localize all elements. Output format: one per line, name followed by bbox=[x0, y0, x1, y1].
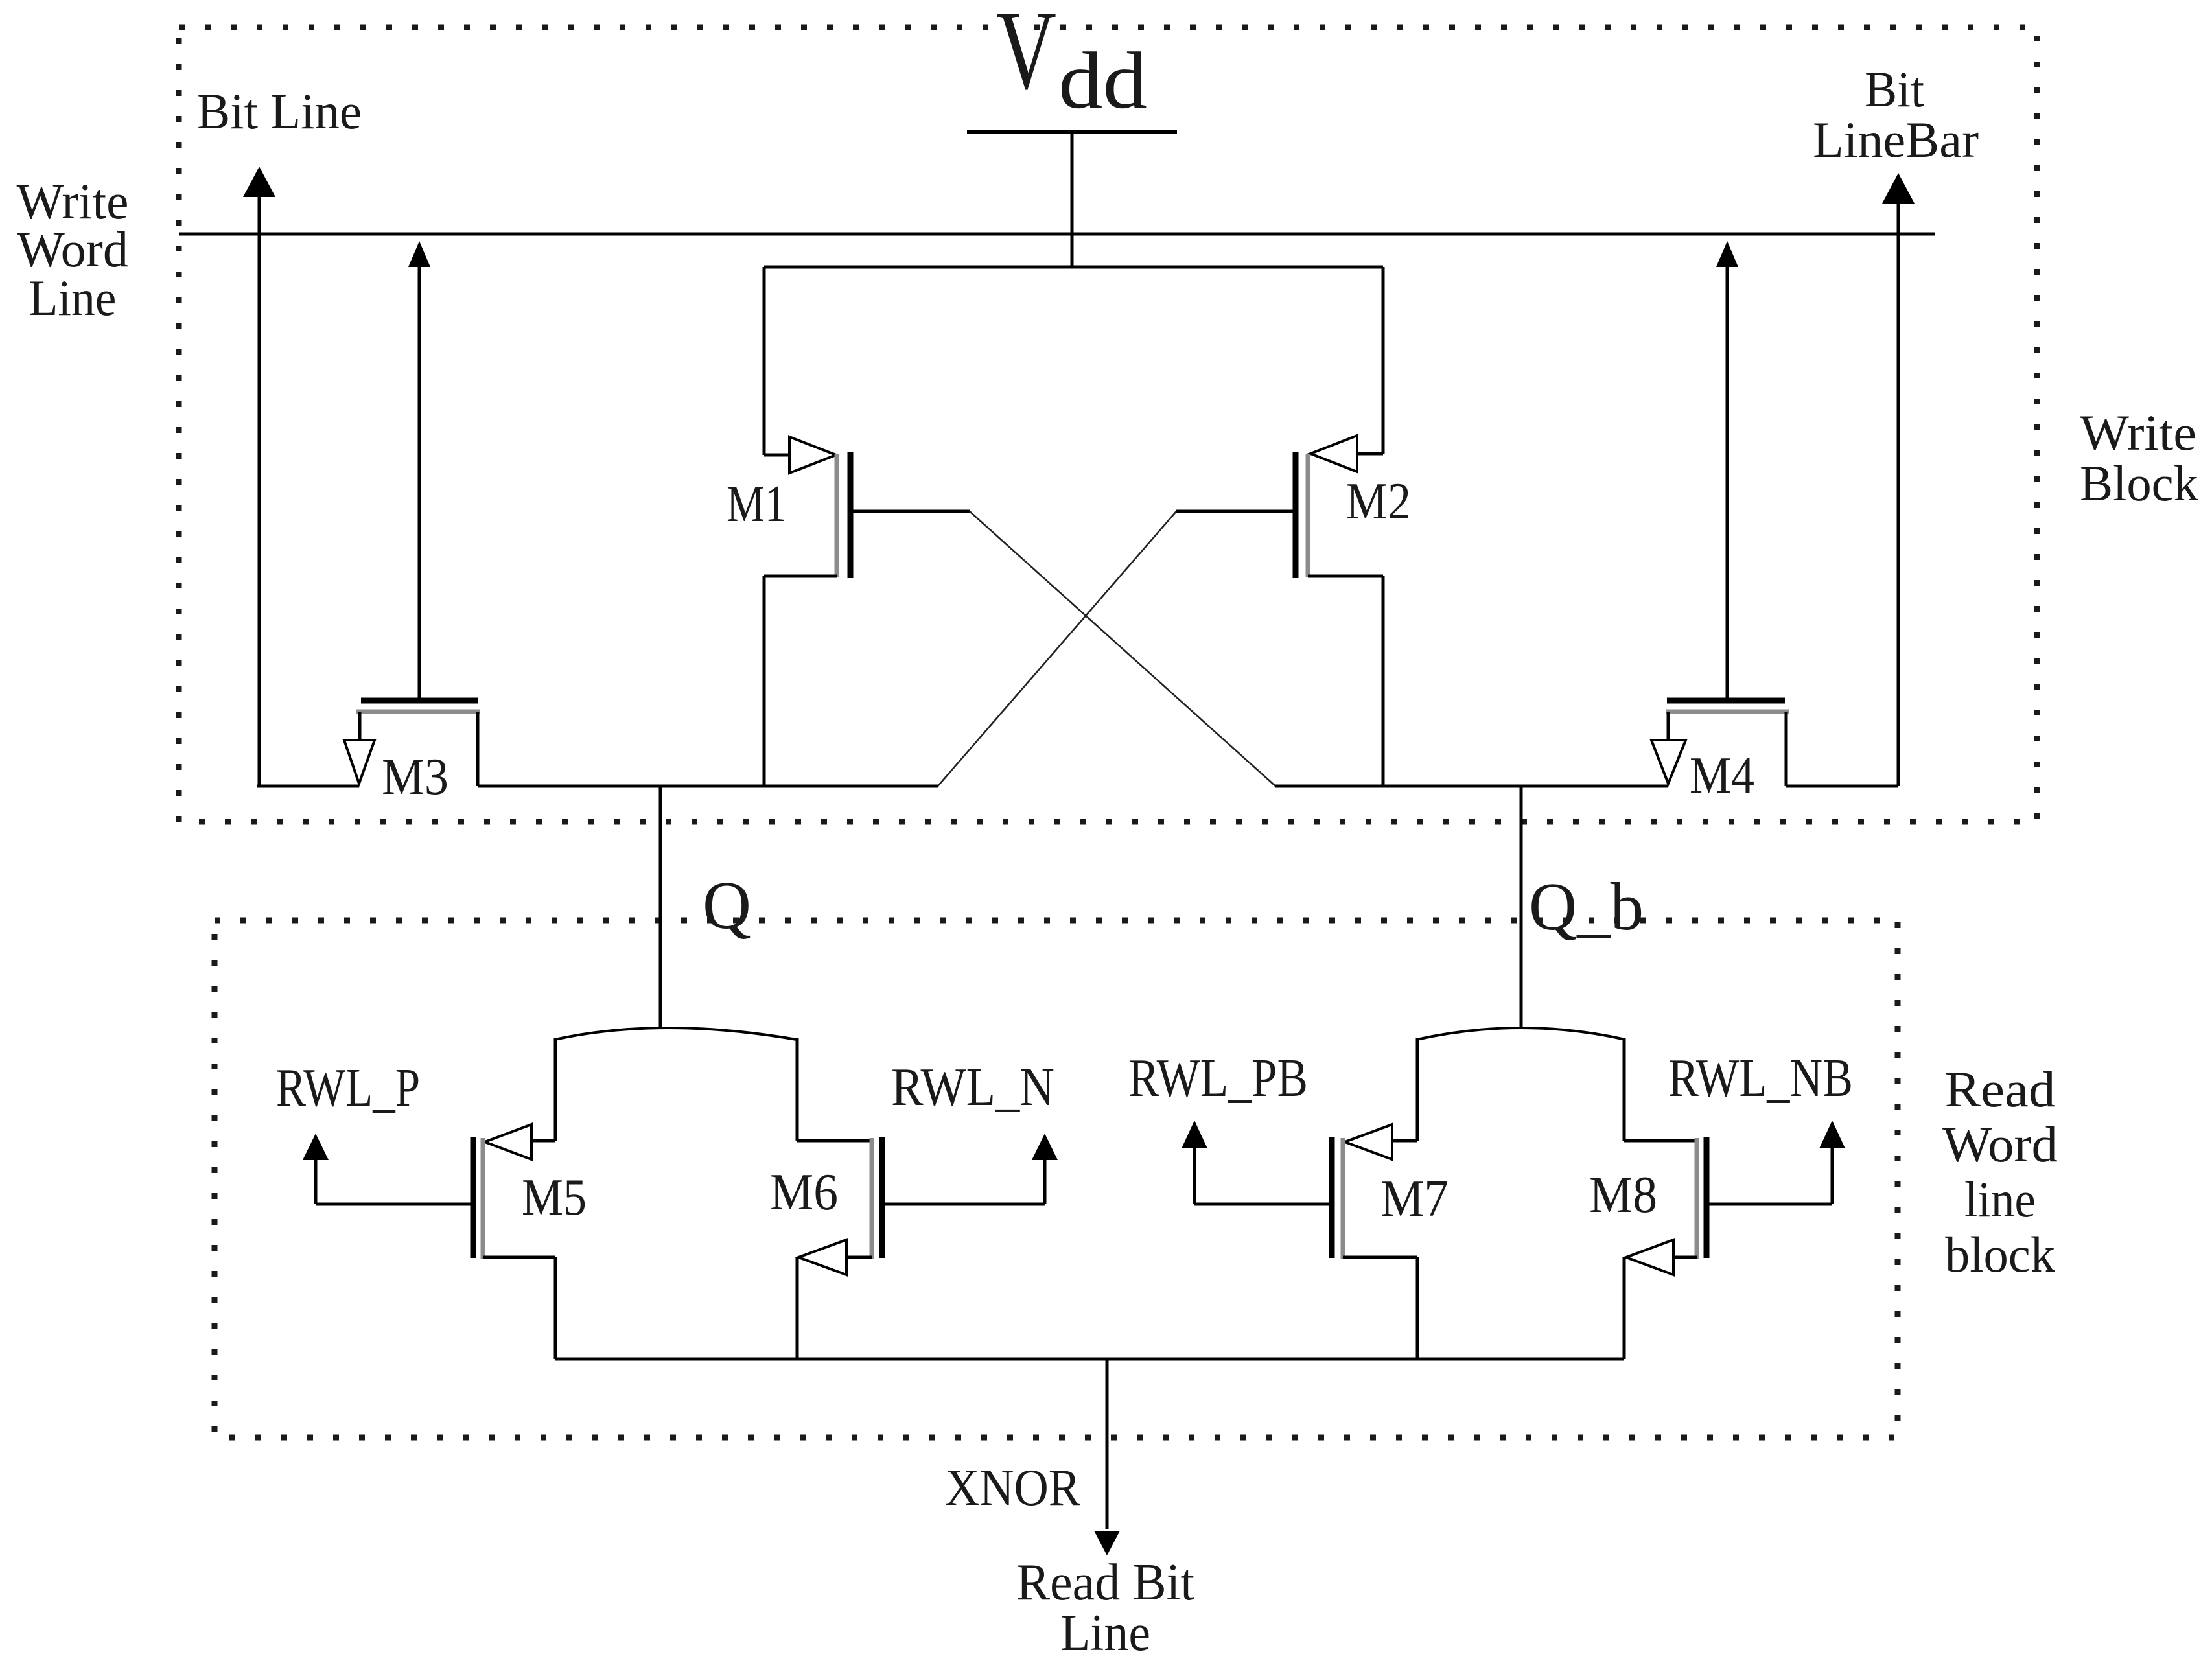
svg-text:M5: M5 bbox=[522, 1169, 587, 1226]
wire M4 drain to Bit LineBar bbox=[1786, 785, 1898, 788]
svg-text:Block: Block bbox=[2080, 455, 2198, 511]
transistor M7 bbox=[1182, 1038, 1417, 1359]
svg-text:M2: M2 bbox=[1346, 473, 1411, 530]
wire M1 gate bbox=[850, 510, 970, 513]
svg-text:Word: Word bbox=[17, 221, 128, 277]
wire read output node bbox=[555, 1358, 1624, 1361]
Read Word line block dotted border bbox=[215, 920, 1898, 1437]
svg-text:Q_b: Q_b bbox=[1529, 868, 1644, 944]
wire Q_b to M7/M8 sources bbox=[1417, 1028, 1625, 1040]
transistor M3 bbox=[344, 241, 480, 786]
svg-text:Bit Line: Bit Line bbox=[197, 83, 362, 139]
svg-text:XNOR: XNOR bbox=[945, 1459, 1081, 1517]
Bit Line wire bbox=[258, 194, 261, 786]
svg-text:line: line bbox=[1964, 1171, 2036, 1227]
transistor M8 bbox=[1624, 1038, 1845, 1359]
svg-text:block: block bbox=[1945, 1226, 2055, 1283]
svg-text:Word: Word bbox=[1942, 1116, 2058, 1172]
svg-text:Read Bit: Read Bit bbox=[1016, 1554, 1194, 1611]
node Q wire bbox=[478, 785, 938, 788]
svg-text:M3: M3 bbox=[382, 749, 448, 806]
transistor M4 bbox=[1651, 241, 1789, 786]
wire top rail M1/M2 sources bbox=[764, 266, 1383, 269]
svg-text:Write: Write bbox=[2080, 404, 2196, 461]
svg-text:RWL_PB: RWL_PB bbox=[1128, 1048, 1308, 1108]
svg-text:Bit: Bit bbox=[1865, 61, 1924, 117]
wire cross-couple M2 gate to Q node bbox=[938, 511, 1176, 786]
svg-text:dd: dd bbox=[1058, 36, 1147, 126]
wire Q to M5/M6 sources bbox=[555, 1028, 797, 1040]
wire XNOR output to Read Bit Line bbox=[1106, 1359, 1109, 1529]
svg-text:M8: M8 bbox=[1589, 1167, 1657, 1224]
node Q_b vertical wire bbox=[1520, 786, 1523, 1028]
svg-text:LineBar: LineBar bbox=[1813, 111, 1979, 168]
wire Vdd to inverter pair rail bbox=[1071, 132, 1074, 267]
svg-text:M4: M4 bbox=[1690, 747, 1754, 804]
svg-text:Read: Read bbox=[1945, 1061, 2056, 1117]
transistor M5 bbox=[303, 1038, 555, 1359]
svg-text:M6: M6 bbox=[770, 1164, 838, 1221]
wire M2 gate bbox=[1176, 510, 1296, 513]
Vdd supply bar bbox=[967, 130, 1177, 134]
svg-text:Q: Q bbox=[703, 867, 751, 943]
Bit LineBar wire bbox=[1897, 201, 1900, 786]
Write Word Line wire bbox=[179, 233, 1935, 236]
svg-text:RWL_P: RWL_P bbox=[276, 1058, 420, 1118]
wire cross-couple M1 gate to Q_b node bbox=[970, 511, 1275, 786]
svg-text:M1: M1 bbox=[727, 476, 786, 533]
transistor M1 bbox=[764, 267, 850, 786]
node Q_b wire bbox=[1275, 785, 1668, 788]
transistor M6 bbox=[797, 1038, 1058, 1359]
wire Bit Line to M3 source bbox=[257, 785, 359, 788]
svg-text:Line: Line bbox=[1060, 1605, 1150, 1662]
svg-text:Line: Line bbox=[29, 270, 117, 326]
Write Block dotted border bbox=[179, 27, 2037, 822]
svg-text:M7: M7 bbox=[1380, 1170, 1449, 1227]
svg-text:V: V bbox=[996, 0, 1056, 113]
node Q vertical wire bbox=[659, 786, 662, 1028]
svg-text:RWL_N: RWL_N bbox=[891, 1057, 1054, 1117]
svg-text:RWL_NB: RWL_NB bbox=[1668, 1048, 1853, 1108]
transistor M2 bbox=[1296, 267, 1383, 786]
